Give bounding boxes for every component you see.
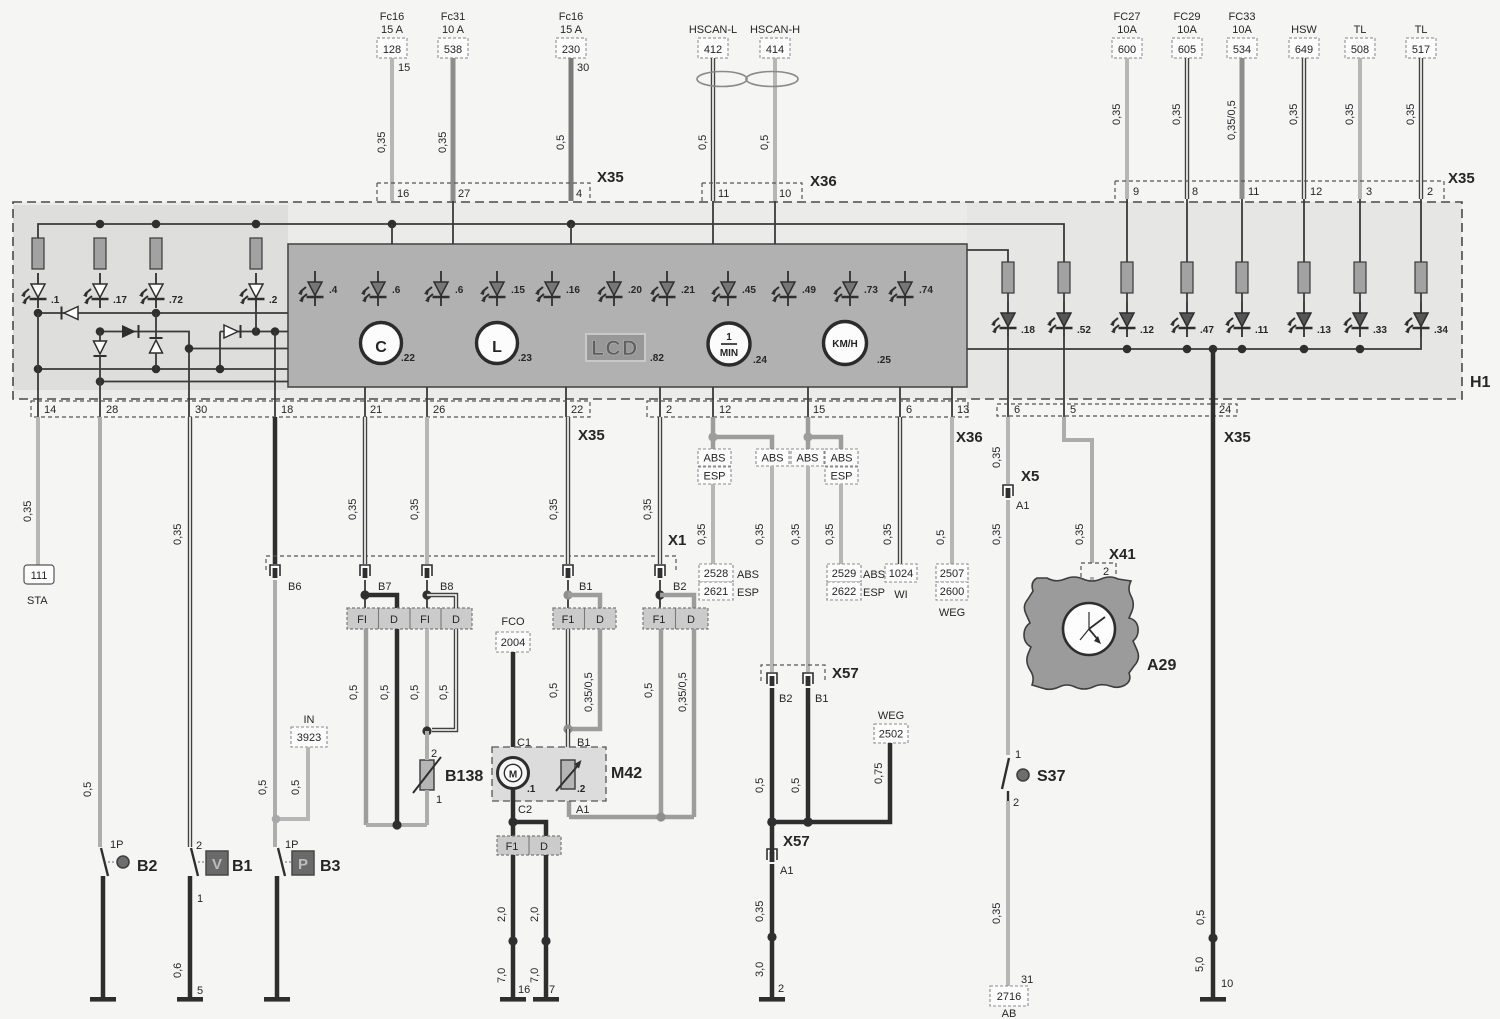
net box 2507 2600 WEG: [936, 564, 968, 619]
wire pin 6 to 1024, 0,35: [882, 417, 900, 564]
connector X1 pin B2: [655, 565, 686, 593]
node B2 branch: [655, 590, 664, 599]
svg-text:ESP: ESP: [737, 587, 759, 599]
wire 538 to X35 pin 27, 0,35: [437, 58, 453, 201]
svg-text:0,35: 0,35: [642, 499, 654, 520]
svg-text:0,5: 0,5: [697, 135, 709, 150]
svg-text:0,35: 0,35: [1288, 104, 1300, 125]
resistor for lamp .33: [1354, 262, 1366, 302]
node row B lamp .2: [252, 327, 261, 336]
switch S37: [1002, 749, 1066, 809]
LED lamp .4 in display module: [298, 271, 338, 306]
node on bus at pin 4 feed: [567, 220, 576, 229]
svg-text:1024: 1024: [889, 568, 913, 580]
svg-text:Fc31: Fc31: [441, 11, 465, 23]
svg-text:128: 128: [383, 44, 401, 56]
svg-text:X35: X35: [578, 427, 605, 444]
connector X35 top-right: [1115, 170, 1475, 200]
svg-text:.13: .13: [1317, 325, 1331, 336]
svg-text:22: 22: [571, 404, 583, 416]
node A1 bus: [656, 812, 665, 821]
svg-text:ABS: ABS: [703, 453, 725, 465]
wire row D: [38, 368, 288, 370]
svg-text:27: 27: [458, 188, 470, 200]
svg-text:AB: AB: [1002, 1008, 1017, 1019]
wire pin 24 to ground, 0,5 5,0: [1194, 349, 1233, 997]
node B8 branch: [422, 590, 431, 599]
wire X57 B1 down, 0,5: [790, 688, 808, 822]
svg-text:534: 534: [1233, 44, 1251, 56]
node ground wire 7: [541, 936, 550, 945]
svg-text:7,0: 7,0: [496, 968, 508, 983]
wire FI right to B138, 0,5: [409, 629, 427, 731]
svg-text:WEG: WEG: [939, 607, 965, 619]
svg-text:ABS: ABS: [830, 453, 852, 465]
wire C2 branch to D: [513, 822, 546, 836]
wire pin16 feed into module: [391, 224, 393, 244]
svg-text:.82: .82: [650, 353, 664, 364]
svg-text:.6: .6: [392, 285, 401, 296]
LED lamp .73 in display module: [833, 271, 878, 306]
wire HSCAN-H into module: [774, 201, 776, 244]
svg-text:.74: .74: [919, 285, 933, 296]
svg-text:0,5: 0,5: [1195, 910, 1207, 925]
switch B3, parking: [278, 839, 341, 876]
svg-text:2: 2: [1427, 186, 1433, 198]
svg-text:TL: TL: [1415, 24, 1428, 36]
svg-text:TL: TL: [1354, 24, 1367, 36]
svg-text:B2: B2: [137, 858, 158, 875]
node row E lamp .17 column: [96, 377, 105, 386]
svg-text:X1: X1: [668, 532, 686, 549]
svg-text:30: 30: [577, 62, 589, 74]
net box 2528 ABS / 2621 ESP: [699, 564, 759, 600]
wire B138 pin2: [425, 731, 429, 760]
svg-text:9: 9: [1133, 186, 1139, 198]
indicator 1/MIN, .24: [708, 323, 767, 366]
svg-text:D: D: [687, 614, 695, 626]
svg-text:.25: .25: [877, 355, 891, 366]
svg-text:.4: .4: [329, 285, 338, 296]
wire junction bus: [772, 820, 808, 825]
wire supply bus inside H1: [38, 224, 1064, 262]
svg-text:1: 1: [436, 794, 442, 806]
svg-text:0,35: 0,35: [548, 499, 560, 520]
svg-text:0,6: 0,6: [172, 963, 184, 978]
svg-text:ESP: ESP: [830, 471, 852, 483]
svg-text:.23: .23: [518, 353, 532, 364]
fuse FC29 10A feed, net 605: [1172, 11, 1202, 58]
wire 414 to X36 pin 10, 0,5: [759, 58, 775, 201]
resistor for lamp .18: [1002, 262, 1014, 302]
wire module output column x952: [951, 387, 953, 417]
fuel gauge box F1 D: [553, 608, 616, 629]
ground pin 24: [1200, 997, 1226, 1002]
fuse FC27 10A feed, net 600: [1112, 11, 1142, 58]
wire pin 22 to X1 B1, 0,35: [548, 417, 568, 564]
node B3 column junction: [272, 815, 281, 824]
wire module output column x900: [899, 387, 901, 417]
svg-text:1P: 1P: [110, 839, 123, 851]
resistor for lamp .2: [250, 238, 262, 269]
svg-text:HSCAN-H: HSCAN-H: [750, 24, 800, 36]
svg-text:D: D: [596, 614, 604, 626]
svg-text:24: 24: [1219, 404, 1231, 416]
wire X35 pin feed to resistor x1360: [1359, 199, 1361, 262]
wire 2004 to M42 C1: [511, 652, 516, 758]
LED lamp .33: [1343, 302, 1387, 337]
svg-text:4: 4: [576, 188, 582, 200]
svg-text:X35: X35: [1448, 170, 1475, 187]
wire D to A1 bus, 0,35/0,5: [677, 629, 694, 817]
svg-text:0,35: 0,35: [882, 524, 894, 545]
wire D to junction, 0,35/0,5: [571, 629, 600, 729]
svg-text:10: 10: [1221, 978, 1233, 990]
svg-text:B1: B1: [577, 737, 590, 749]
svg-text:.20: .20: [628, 285, 642, 296]
resistor for lamp .1: [32, 238, 44, 269]
svg-text:C: C: [375, 339, 387, 356]
svg-text:2: 2: [1103, 566, 1109, 578]
LED lamp .13: [1287, 302, 1331, 337]
node on bus at lamp .72: [152, 220, 161, 229]
svg-text:X41: X41: [1109, 546, 1136, 563]
svg-text:.2: .2: [577, 784, 586, 795]
connector X57 pin B2: [767, 673, 792, 705]
svg-text:D: D: [390, 614, 398, 626]
svg-text:12: 12: [719, 404, 731, 416]
wire pin 21 to X1 B7, 0,35: [347, 417, 365, 564]
svg-text:.73: .73: [864, 285, 878, 296]
LED lamp .49 in display module: [771, 271, 816, 306]
svg-text:LCD: LCD: [591, 337, 639, 360]
node on bus at lamp .2: [252, 220, 261, 229]
wire pin 13 to 2507, 0,5: [935, 417, 952, 564]
ground B3: [264, 997, 290, 1002]
wire 508 to X35 pin 3, 0,35: [1344, 58, 1360, 199]
svg-text:15: 15: [398, 62, 410, 74]
ground B2: [90, 997, 116, 1002]
node B1 branch: [563, 590, 572, 599]
svg-text:1P: 1P: [285, 839, 298, 851]
wire pin 18 column inside H1: [274, 332, 276, 418]
svg-text:14: 14: [44, 404, 56, 416]
wire lamp .2 to row B: [255, 307, 257, 332]
svg-text:0,5: 0,5: [548, 683, 560, 698]
svg-text:D: D: [452, 614, 460, 626]
node M42 B1 junction: [563, 724, 572, 733]
connector X36 bottom: [647, 401, 983, 446]
svg-text:0,5: 0,5: [257, 780, 269, 795]
svg-text:6: 6: [1014, 404, 1020, 416]
svg-text:0,5: 0,5: [409, 685, 421, 700]
svg-text:M: M: [509, 770, 517, 781]
wire A1 bus: [569, 801, 694, 817]
svg-text:ABS: ABS: [761, 453, 783, 465]
wire M42 C2 down: [511, 788, 516, 822]
svg-text:.18: .18: [1021, 325, 1035, 336]
wire junction into M42: [566, 729, 570, 760]
svg-text:0,35: 0,35: [1074, 524, 1086, 545]
switch B2, handbrake: [101, 839, 158, 876]
svg-text:WI: WI: [894, 589, 907, 601]
resistor for lamp .12: [1121, 262, 1133, 302]
wire module output column x808: [807, 387, 809, 417]
svg-text:HSW: HSW: [1291, 24, 1317, 36]
svg-text:Fc16: Fc16: [380, 11, 404, 23]
svg-text:15 A: 15 A: [381, 24, 404, 36]
LED lamp .6 in display module: [424, 271, 464, 306]
svg-text:2: 2: [1013, 797, 1019, 809]
svg-text:.15: .15: [511, 285, 525, 296]
wire row B right with diode: [220, 325, 288, 369]
svg-text:KM/H: KM/H: [832, 339, 858, 350]
svg-text:.1: .1: [527, 784, 536, 795]
svg-text:.22: .22: [401, 353, 415, 364]
svg-text:S37: S37: [1037, 768, 1066, 785]
wire 3923 to B3 column, 0,5: [277, 747, 308, 819]
svg-text:.34: .34: [1434, 325, 1448, 336]
connector X1 pin B6: [270, 565, 301, 593]
node X57 B1 junction: [803, 817, 813, 827]
svg-text:B1: B1: [815, 693, 828, 705]
svg-text:5,0: 5,0: [1194, 957, 1206, 972]
svg-text:28: 28: [106, 404, 118, 416]
wire C2 to F1: [511, 822, 516, 836]
svg-text:0,35: 0,35: [824, 524, 836, 545]
svg-text:0,35: 0,35: [347, 499, 359, 520]
svg-text:.33: .33: [1373, 325, 1387, 336]
wire D right loop, 0,5: [432, 629, 456, 730]
svg-text:X35: X35: [1224, 429, 1251, 446]
LED lamp .17: [83, 273, 127, 308]
node row D diode branch: [216, 365, 225, 374]
svg-text:0,35: 0,35: [1171, 104, 1183, 125]
svg-text:2502: 2502: [879, 729, 903, 741]
wire row B left with diode: [100, 325, 189, 417]
LED lamp .20 in display module: [597, 271, 642, 306]
svg-text:B1: B1: [232, 858, 253, 875]
svg-text:ESP: ESP: [863, 587, 885, 599]
svg-text:0,35: 0,35: [754, 524, 766, 545]
svg-text:3: 3: [1366, 186, 1372, 198]
wire B1 branch to D: [568, 595, 600, 608]
svg-text:2600: 2600: [940, 586, 964, 598]
wire X41 into A29: [1090, 577, 1094, 580]
svg-text:414: 414: [766, 44, 784, 56]
svg-text:0,35/0,5: 0,35/0,5: [1226, 100, 1238, 140]
connector X57 bottom: [783, 833, 810, 850]
svg-text:0,35: 0,35: [172, 524, 184, 545]
resistor for lamp .13: [1298, 262, 1310, 302]
svg-text:A1: A1: [1016, 500, 1029, 512]
LED lamp .1: [21, 273, 60, 308]
node ground wire 16: [508, 936, 517, 945]
wire row C: [189, 348, 288, 350]
svg-text:508: 508: [1351, 44, 1369, 56]
svg-text:2004: 2004: [501, 637, 525, 649]
node B7 branch: [360, 590, 369, 599]
svg-text:605: 605: [1178, 44, 1196, 56]
wire 517 to X35 pin 2, 0,35: [1405, 58, 1421, 199]
svg-text:0,35: 0,35: [1344, 104, 1356, 125]
LED lamp .72: [139, 273, 183, 308]
wire B8 branch to D: [427, 595, 456, 608]
node cathode bus x1187: [1183, 345, 1192, 354]
svg-text:V: V: [212, 856, 222, 873]
svg-text:.72: .72: [169, 295, 183, 306]
svg-text:2528: 2528: [704, 568, 728, 580]
wire X35 pin feed to resistor x1127: [1126, 199, 1128, 262]
connector X35 bottom-right: [997, 404, 1251, 446]
wire B138 pin1 down: [425, 790, 429, 825]
node row B to pin 18 wire: [271, 327, 280, 336]
svg-text:0,35: 0,35: [696, 524, 708, 545]
svg-text:15 A: 15 A: [560, 24, 583, 36]
svg-text:6: 6: [906, 404, 912, 416]
svg-text:B1: B1: [579, 581, 592, 593]
net box 111 STA: [24, 565, 54, 607]
ground 7: [533, 997, 559, 1002]
net box ABS 3: [791, 449, 824, 466]
wire 534 to X35 pin 11, 0,35/0,5: [1226, 58, 1242, 199]
svg-text:0,5: 0,5: [379, 685, 391, 700]
svg-text:.16: .16: [566, 285, 580, 296]
node cathode bus x1127: [1123, 345, 1132, 354]
svg-text:STA: STA: [27, 595, 48, 607]
svg-text:P: P: [298, 856, 308, 873]
wire pin 2 to X1 B2, 0,35: [642, 417, 660, 564]
ground box F1 D: [497, 836, 561, 855]
svg-text:F1: F1: [562, 614, 575, 626]
wire 600 to X35 pin 9, 0,35: [1111, 58, 1127, 199]
wire S37 to 2716, 0,35: [991, 801, 1033, 986]
node cathode bus x1242: [1238, 345, 1247, 354]
svg-text:X57: X57: [783, 833, 810, 850]
wire pin 26 to X1 B8, 0,35: [409, 417, 427, 564]
svg-text:0,35: 0,35: [409, 499, 421, 520]
svg-text:11: 11: [1248, 186, 1259, 198]
svg-text:B2: B2: [673, 581, 686, 593]
wire F1 to M42 B1, 0,5: [548, 629, 568, 729]
svg-text:16: 16: [518, 984, 530, 996]
svg-text:B3: B3: [320, 858, 341, 875]
svg-text:0,35: 0,35: [1111, 104, 1123, 125]
temp gauge box F1 D: [643, 608, 708, 629]
wire D to ground 7, 2,0 7,0: [529, 855, 555, 997]
svg-text:FI: FI: [357, 614, 367, 626]
svg-text:ABS: ABS: [796, 453, 818, 465]
HSW feed, net 649: [1289, 24, 1319, 58]
node loop left: [392, 820, 401, 829]
wire B1 to F1: [567, 580, 569, 608]
svg-text:5: 5: [197, 985, 203, 997]
svg-text:0,75: 0,75: [873, 763, 885, 784]
svg-text:F1: F1: [506, 841, 519, 853]
wire module output column x566: [565, 387, 567, 417]
svg-text:16: 16: [397, 188, 409, 200]
wire ABS3 to X57 B1, 0,35: [790, 466, 808, 672]
svg-text:30: 30: [195, 404, 207, 416]
variable resistor B138: [413, 748, 483, 806]
wire module output column x713: [712, 387, 714, 417]
svg-text:A1: A1: [576, 804, 589, 816]
node on bus at lamp .17: [96, 220, 105, 229]
node on bus at pin 16 feed: [388, 220, 397, 229]
LED lamp .34: [1404, 302, 1448, 337]
svg-text:FCO: FCO: [501, 616, 525, 628]
svg-text:B6: B6: [288, 581, 301, 593]
switch B1, washer fluid: [191, 840, 253, 905]
svg-text:2: 2: [778, 983, 784, 995]
resistor for lamp .17: [94, 238, 106, 269]
svg-text:0,5: 0,5: [935, 530, 947, 545]
svg-text:3,0: 3,0: [754, 962, 766, 977]
svg-text:7: 7: [549, 984, 555, 996]
connector X1: [266, 532, 686, 570]
svg-text:X36: X36: [956, 429, 983, 446]
wire pin 28 column inside H1: [99, 382, 101, 418]
svg-text:2,0: 2,0: [529, 907, 541, 922]
wire ABS2 to X57 B2, 0,35: [754, 466, 772, 672]
svg-text:.6: .6: [455, 285, 464, 296]
svg-text:B7: B7: [378, 581, 391, 593]
wire module output column x660: [659, 387, 661, 417]
wire B8 to FI: [426, 580, 428, 608]
wire 412 to X36 pin 11, 0,5: [697, 58, 713, 201]
svg-text:.45: .45: [742, 285, 756, 296]
connector X1 pin B1: [563, 565, 592, 593]
svg-text:412: 412: [704, 44, 722, 56]
resistor for lamp .47: [1181, 262, 1193, 302]
connector X5 pin A1: [1003, 468, 1039, 512]
svg-text:0,5: 0,5: [754, 778, 766, 793]
wire module to lamp .18 resistor: [967, 250, 1008, 262]
wire pin 15 to ABS boxes: [806, 417, 811, 449]
svg-text:.17: .17: [113, 295, 127, 306]
svg-text:.47: .47: [1200, 325, 1214, 336]
svg-text:B8: B8: [440, 581, 453, 593]
svg-text:ABS: ABS: [737, 569, 759, 581]
svg-text:FC29: FC29: [1174, 11, 1201, 23]
svg-text:.52: .52: [1077, 325, 1091, 336]
net box 2529 ABS / 2622 ESP: [827, 564, 885, 600]
node pin 12 branch: [708, 432, 717, 441]
svg-text:0,35: 0,35: [790, 524, 802, 545]
wire pin 14 column inside H1: [37, 313, 39, 417]
wire B6 to switch B3, 0,5: [257, 580, 275, 847]
svg-text:26: 26: [433, 404, 445, 416]
stepper motor M42: [492, 737, 642, 816]
connector X35 top-left: [377, 169, 624, 202]
LED lamp .11: [1225, 302, 1269, 337]
svg-text:10 A: 10 A: [442, 24, 465, 36]
svg-text:2716: 2716: [997, 991, 1021, 1003]
svg-text:0,5: 0,5: [790, 778, 802, 793]
node X57 B2 junction: [767, 817, 777, 827]
LED lamp .74 in display module: [888, 271, 933, 306]
wire pin 14 to net 111, 0,35: [22, 417, 38, 565]
net WEG 2502: [874, 710, 908, 743]
net box ABS ESP left: [698, 449, 731, 484]
net box ABS ESP right: [825, 449, 858, 484]
fuse Fc16 15A feed, net 128: [377, 11, 407, 58]
svg-text:B138: B138: [445, 768, 483, 785]
node row A lamp .72: [152, 309, 161, 318]
indicator L, .23: [477, 323, 533, 365]
wire B7 to FI: [364, 580, 366, 608]
wire FI loop left, 0,5: [348, 629, 366, 825]
